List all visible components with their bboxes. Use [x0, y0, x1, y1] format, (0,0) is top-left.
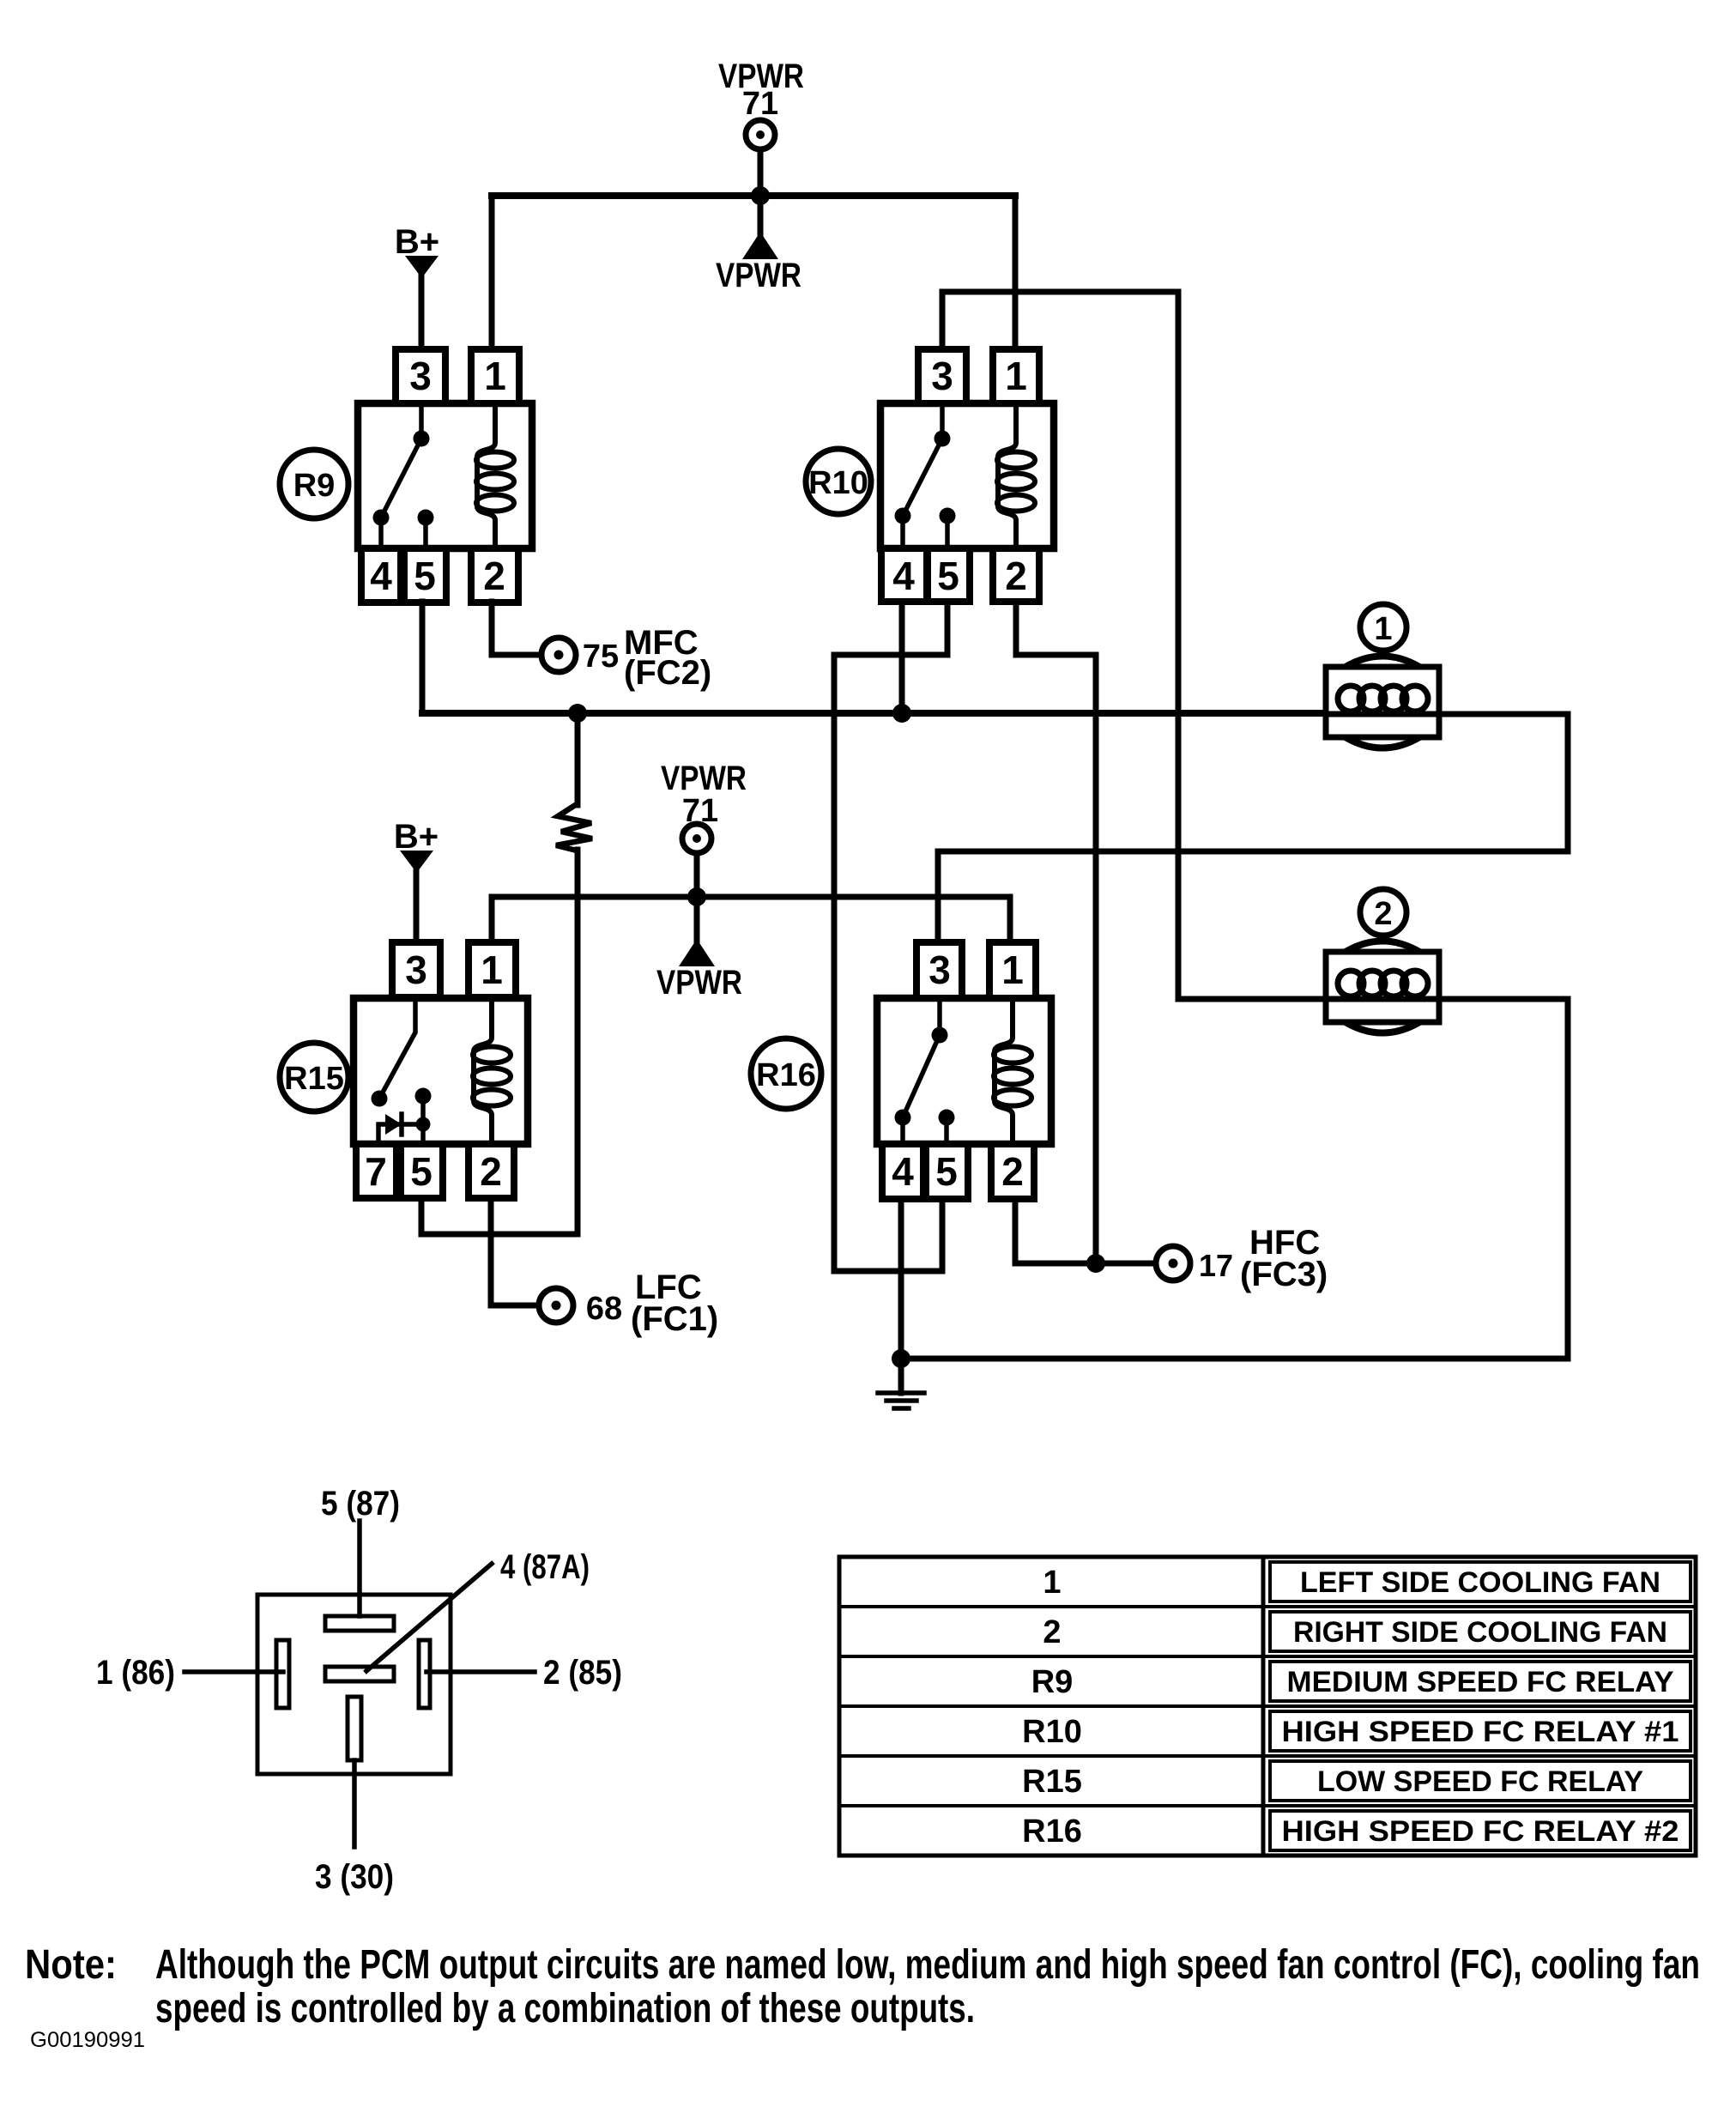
wire R15 pin5 to resistor: [421, 1199, 578, 1234]
svg-text:HIGH SPEED FC RELAY #1: HIGH SPEED FC RELAY #1: [1282, 1716, 1679, 1748]
svg-text:3: 3: [931, 354, 953, 398]
connector HFC 17: [1156, 1246, 1190, 1281]
svg-text:R15: R15: [284, 1061, 344, 1097]
junction VPWR top: [751, 186, 770, 205]
svg-text:4 (87A): 4 (87A): [500, 1548, 590, 1586]
wire R15 pin1 drop: [489, 897, 495, 942]
power symbol B+ (R9): [405, 256, 439, 349]
svg-text:(FC2): (FC2): [624, 654, 711, 692]
svg-text:2: 2: [1001, 1149, 1024, 1194]
svg-text:Although the PCM output circui: Although the PCM output circuits are nam…: [155, 1942, 1700, 1988]
svg-text:3: 3: [405, 948, 427, 992]
svg-text:5: 5: [937, 554, 959, 598]
terminal pointer 4 (87A): [366, 1564, 492, 1671]
connector MFC 75: [541, 638, 576, 672]
relay R10: [880, 349, 1054, 602]
svg-text:7: 7: [365, 1149, 387, 1194]
svg-text:HIGH SPEED FC RELAY #2: HIGH SPEED FC RELAY #2: [1282, 1815, 1679, 1848]
terminal lead 1 (86): [184, 1669, 283, 1674]
relay R15: [354, 942, 528, 1198]
svg-text:VPWR: VPWR: [656, 964, 742, 1002]
wire R16 pin4 drop: [898, 1199, 904, 1359]
terminal lead 3 (30): [352, 1760, 357, 1847]
svg-text:5 (87): 5 (87): [321, 1485, 400, 1523]
junction R10 pin4/bus: [892, 704, 911, 723]
svg-text:(FC3): (FC3): [1240, 1256, 1328, 1293]
svg-text:5: 5: [935, 1149, 958, 1194]
svg-text:MEDIUM SPEED FC RELAY: MEDIUM SPEED FC RELAY: [1287, 1666, 1674, 1698]
fan motor 1: [1326, 657, 1439, 748]
svg-text:4: 4: [892, 554, 915, 598]
svg-text:R10: R10: [1022, 1714, 1082, 1750]
svg-text:2: 2: [1005, 554, 1027, 598]
power symbol B+ (R15): [400, 851, 433, 942]
svg-text:1: 1: [1043, 1565, 1061, 1601]
relay R15 switch: [372, 998, 432, 1124]
wire R15 pin2 to LFC: [491, 1199, 537, 1305]
connector VPWR 71 middle: [682, 824, 711, 853]
legend table: [839, 1557, 1696, 1856]
junction HFC: [1086, 1254, 1105, 1273]
wire right vertical to fan 2: [1178, 292, 1327, 999]
relay R9 coil: [476, 403, 514, 548]
wire R16 pin2 to HFC: [1015, 1199, 1156, 1263]
wire R9 pin2 to MFC: [492, 602, 540, 655]
power symbol VPWR feed (triangle up): [742, 196, 778, 259]
wire VPWR middle bus: [492, 894, 1010, 900]
fan motor 2: [1326, 941, 1439, 1033]
svg-text:R16: R16: [756, 1057, 816, 1093]
wire resistor bottom lead: [575, 850, 581, 1234]
svg-text:Note:: Note:: [25, 1942, 117, 1988]
svg-text:3: 3: [409, 354, 432, 398]
svg-text:2: 2: [1043, 1614, 1061, 1650]
svg-text:(FC1): (FC1): [631, 1300, 718, 1338]
relay R16: [877, 942, 1051, 1199]
svg-text:1: 1: [1005, 354, 1027, 398]
svg-text:RIGHT SIDE COOLING FAN: RIGHT SIDE COOLING FAN: [1293, 1616, 1667, 1649]
terminal lead 2 (85): [426, 1669, 535, 1674]
relay R15 coil: [473, 998, 511, 1143]
wire R10 pin4 drop: [899, 602, 905, 713]
svg-text:VPWR: VPWR: [716, 257, 801, 294]
resistor: [556, 804, 592, 851]
wire fan1 return to R16 pin3: [938, 714, 1568, 942]
wire VPWR connector stub: [758, 149, 764, 196]
wire R9 pin1 drop: [489, 196, 495, 349]
designator circle 1: [1360, 604, 1406, 651]
svg-text:2: 2: [480, 1149, 502, 1194]
svg-text:1: 1: [1374, 611, 1392, 647]
svg-text:B+: B+: [395, 223, 439, 261]
svg-text:R15: R15: [1022, 1764, 1082, 1800]
wire VPWR middle stub: [694, 853, 700, 897]
wire resistor top lead: [575, 713, 581, 805]
wire medium bus: [422, 710, 1326, 717]
wire R9 pin5 drop: [420, 602, 426, 713]
svg-text:speed is controlled by a combi: speed is controlled by a combination of …: [155, 1986, 975, 2031]
svg-text:68: 68: [586, 1291, 622, 1327]
relay R9 switch: [373, 403, 434, 548]
designator circle 2: [1360, 889, 1406, 935]
svg-text:R16: R16: [1022, 1813, 1082, 1850]
connector LFC 68: [539, 1288, 573, 1323]
svg-text:B+: B+: [394, 818, 439, 856]
junction ground: [892, 1349, 910, 1368]
svg-text:R9: R9: [1031, 1664, 1074, 1700]
svg-text:5: 5: [410, 1149, 432, 1194]
wire R10 pin1 drop: [1013, 196, 1019, 349]
wire R10 pin2 to HFC vertical: [1016, 602, 1096, 1263]
junction resistor/bus: [568, 704, 587, 723]
relay R16 switch: [895, 998, 955, 1144]
svg-text:4: 4: [892, 1149, 914, 1194]
svg-text:17: 17: [1199, 1248, 1233, 1283]
svg-text:LEFT SIDE COOLING FAN: LEFT SIDE COOLING FAN: [1300, 1566, 1660, 1599]
wire ground bus: [901, 1356, 1568, 1362]
designator R9: [280, 450, 348, 518]
junction VPWR middle: [687, 887, 706, 906]
svg-text:1: 1: [481, 948, 503, 992]
svg-text:3: 3: [928, 948, 951, 992]
svg-text:1 (86): 1 (86): [96, 1654, 175, 1692]
designator R10: [806, 449, 871, 514]
svg-text:R10: R10: [808, 465, 868, 501]
svg-text:5: 5: [414, 554, 436, 598]
svg-text:2: 2: [1374, 896, 1392, 932]
svg-text:G00190991: G00190991: [30, 2028, 145, 2052]
svg-text:2: 2: [483, 554, 505, 598]
power symbol VPWR middle (triangle up): [679, 897, 715, 966]
svg-text:71: 71: [742, 86, 778, 122]
designator R15: [280, 1043, 348, 1111]
ground: [878, 1359, 924, 1408]
svg-text:2 (85): 2 (85): [543, 1654, 622, 1692]
svg-text:1: 1: [1001, 948, 1024, 992]
svg-text:VPWR: VPWR: [661, 760, 747, 797]
wire R16 pin1 drop: [1007, 897, 1013, 942]
relay R16 coil: [994, 998, 1031, 1143]
relay R10 switch: [895, 403, 956, 548]
svg-text:R9: R9: [293, 468, 336, 504]
wire R10 pin5 to R16 pin5: [834, 602, 947, 1271]
wire R10 pin3 branch: [942, 292, 1178, 349]
wire top VPWR bus: [492, 192, 1015, 199]
svg-text:4: 4: [370, 554, 392, 598]
svg-text:LOW SPEED FC RELAY: LOW SPEED FC RELAY: [1317, 1765, 1643, 1798]
connector VPWR 71 top: [746, 120, 775, 149]
terminal lead 5 (87): [357, 1521, 362, 1616]
relay R9: [358, 349, 532, 602]
svg-text:1: 1: [484, 354, 506, 398]
diode CR1 in R15: [378, 1114, 431, 1144]
svg-text:3 (30): 3 (30): [315, 1858, 394, 1896]
relay R10 coil: [997, 403, 1035, 548]
svg-text:75: 75: [583, 639, 619, 675]
designator R16: [751, 1038, 821, 1109]
relay terminal diagram: [257, 1595, 451, 1774]
wire fan2 return to ground bus: [1439, 999, 1568, 1359]
